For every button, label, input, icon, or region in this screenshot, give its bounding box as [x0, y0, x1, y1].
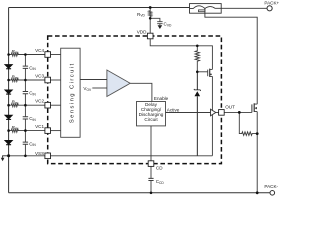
wire VC4 inside — [51, 54, 61, 56]
capacitor CVD — [150, 18, 162, 29]
resistor internal R1 — [195, 46, 199, 72]
wire battery positive top rail — [9, 7, 190, 9]
wire Active to buffer — [166, 112, 211, 114]
svg-text:VDD: VDD — [137, 29, 147, 34]
svg-text:VC4: VC4 — [35, 48, 44, 53]
transistor internal M1 — [208, 69, 213, 77]
svg-text:VC2: VC2 — [35, 99, 44, 104]
wire VC2 to pin — [25, 104, 45, 106]
thermal fuse F1 box — [190, 4, 222, 14]
pin OUT — [219, 110, 225, 116]
pin VC3 — [45, 77, 51, 83]
wire VC2 inside — [51, 104, 61, 106]
node column with capacitors — [24, 55, 26, 156]
wire Q1 source to pack- rail — [256, 112, 258, 193]
junction node dots — [149, 6, 152, 9]
svg-text:Sensing Circuit: Sensing Circuit — [69, 62, 75, 123]
svg-text:Circuit: Circuit — [144, 117, 158, 122]
wire pack negative bottom rail — [9, 192, 270, 194]
wire VOV reference to comparator - — [92, 87, 107, 89]
op-amp comparator U1 — [107, 70, 130, 97]
wire delay circuit to CD pin — [150, 126, 152, 161]
resistor RIN row VC1 — [9, 129, 26, 132]
wire battery stack left rail — [8, 8, 10, 193]
wire comparator out to delay circuit — [130, 83, 152, 101]
battery cell B3 — [5, 115, 12, 119]
svg-text:VC1: VC1 — [35, 124, 44, 129]
wire VC4 to pin — [25, 54, 45, 56]
wire VDD pin to internal rail — [150, 39, 212, 70]
wire fuse heater to FET drain rail — [205, 9, 257, 105]
battery cell B2 — [5, 90, 12, 94]
wire VSS rail inside — [51, 155, 213, 157]
pin VDD — [147, 33, 153, 39]
capacitor CIN 1 — [23, 66, 28, 68]
resistor RIN row VC3 — [9, 78, 26, 81]
sensing circuit box — [61, 48, 80, 137]
battery cell B4 — [5, 141, 12, 145]
fuse heater resistor — [199, 10, 205, 12]
svg-text:Active: Active — [167, 107, 180, 112]
svg-text:PACK+: PACK+ — [264, 1, 279, 6]
wire VC1 to pin — [25, 130, 45, 132]
wire VC3 inside — [51, 79, 61, 81]
terminal PACK- — [270, 191, 275, 196]
resistor RIN row VC4 — [9, 53, 26, 56]
resistor RVD — [149, 8, 152, 19]
wire sensing to comparator + — [80, 79, 107, 81]
battery cell B1 — [5, 65, 12, 69]
terminal PACK+ — [267, 6, 272, 11]
resistor gate-source RGS — [239, 112, 257, 135]
zener diode Z1 — [194, 72, 201, 156]
svg-text:OUT: OUT — [225, 105, 235, 110]
capacitor CIN 4 — [23, 142, 28, 144]
svg-text:VSS: VSS — [35, 151, 44, 156]
capacitor CIN 2 — [23, 92, 28, 94]
delay circuit box — [137, 102, 166, 126]
wire RVD to VDD pin — [149, 18, 151, 33]
dashed IC boundary — [48, 36, 222, 164]
wire fuse to PACK+ — [221, 7, 267, 9]
wire buffer to OUT pin — [216, 112, 219, 114]
pin VC1 — [45, 128, 51, 134]
thermal fuse elements — [190, 6, 222, 9]
wire VC1 inside — [51, 130, 61, 132]
pin CD — [148, 161, 154, 167]
svg-text:CD: CD — [156, 166, 163, 171]
wire CD pin to capacitor — [150, 166, 152, 192]
wire OUT to gate — [223, 111, 252, 113]
transistor Q1 external NMOS — [252, 103, 257, 112]
buffer U2 — [211, 109, 216, 116]
resistor RIN row VC2 — [9, 104, 26, 107]
svg-text:PACK-: PACK- — [264, 184, 278, 189]
capacitor CCD — [148, 178, 153, 180]
pin VC4 — [45, 52, 51, 58]
svg-text:VC3: VC3 — [35, 73, 44, 78]
wire gate of internal FET — [197, 71, 207, 73]
wire internal FET source to buffer — [211, 76, 213, 155]
svg-text:Enable: Enable — [154, 96, 169, 101]
pin VSS — [45, 153, 51, 159]
wire VSS row — [9, 155, 45, 157]
label Delay Charging/Discharging Circuit — [139, 102, 164, 122]
capacitor CIN 3 — [23, 117, 28, 119]
ground arrow at battery minus — [1, 156, 9, 161]
wire VC3 to pin — [25, 79, 45, 81]
pin VC2 — [45, 102, 51, 108]
